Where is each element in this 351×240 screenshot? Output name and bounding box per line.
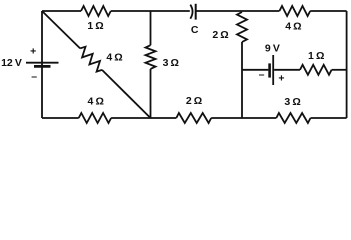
resistor R 2ohm bottom [176, 113, 211, 123]
svg-text:1 Ω: 1 Ω [308, 50, 324, 62]
capacitor C straight plate [195, 4, 197, 20]
wire top-left segment [42, 10, 81, 12]
resistor R 2ohm vertical [237, 12, 247, 42]
resistor R 1ohm top [81, 6, 111, 16]
svg-text:3 Ω: 3 Ω [163, 57, 179, 69]
svg-text:–: – [31, 70, 37, 82]
battery 9V short plate [268, 63, 271, 77]
battery 12V short plate [34, 65, 51, 68]
wire right vertical [346, 11, 348, 118]
svg-text:4 Ω: 4 Ω [88, 96, 104, 108]
wire 9V-branch middle segment [274, 69, 300, 71]
wire diagonal upper segment [42, 11, 80, 48]
svg-text:–: – [259, 69, 265, 81]
svg-text:12 V: 12 V [1, 57, 22, 69]
battery 12V long plate [26, 62, 59, 64]
resistor R 1ohm branch [300, 65, 332, 75]
resistor R 4ohm top-right [279, 6, 310, 16]
wire diagonal lower segment [102, 70, 151, 118]
svg-text:2 Ω: 2 Ω [212, 29, 228, 41]
wire left vertical [41, 11, 43, 118]
wire top far-right segment [310, 10, 346, 12]
resistor R 4ohm diagonal [80, 47, 102, 72]
wire 9V-branch right segment [332, 69, 347, 71]
svg-text:4 Ω: 4 Ω [285, 21, 301, 33]
capacitor C curved plate [190, 5, 192, 19]
svg-text:4 Ω: 4 Ω [106, 52, 122, 64]
wire bottom-right segment [311, 117, 347, 119]
svg-text:2 Ω: 2 Ω [186, 95, 202, 107]
wire bottom segment 2 [111, 117, 176, 119]
resistor R 4ohm bottom [79, 113, 111, 123]
wire 9V-branch left segment [242, 69, 268, 71]
wire top middle segment [111, 10, 190, 12]
wire middle vertical lower segment [150, 69, 152, 118]
wire middle vertical upper segment [150, 11, 152, 45]
battery 9V long plate [272, 55, 274, 85]
resistor R 3ohm bottom [276, 113, 310, 123]
resistor R 3ohm middle [146, 45, 156, 69]
svg-text:+: + [278, 72, 284, 84]
svg-text:9 V: 9 V [265, 42, 280, 54]
wire second vertical lower segment [241, 42, 243, 118]
wire bottom segment 3 [211, 117, 276, 119]
svg-text:+: + [30, 46, 36, 58]
wire bottom-left segment [42, 117, 79, 119]
svg-text:3 Ω: 3 Ω [284, 96, 300, 108]
wire top right-of-cap segment [196, 10, 280, 12]
svg-text:1 Ω: 1 Ω [87, 20, 103, 32]
svg-text:C: C [191, 24, 199, 36]
